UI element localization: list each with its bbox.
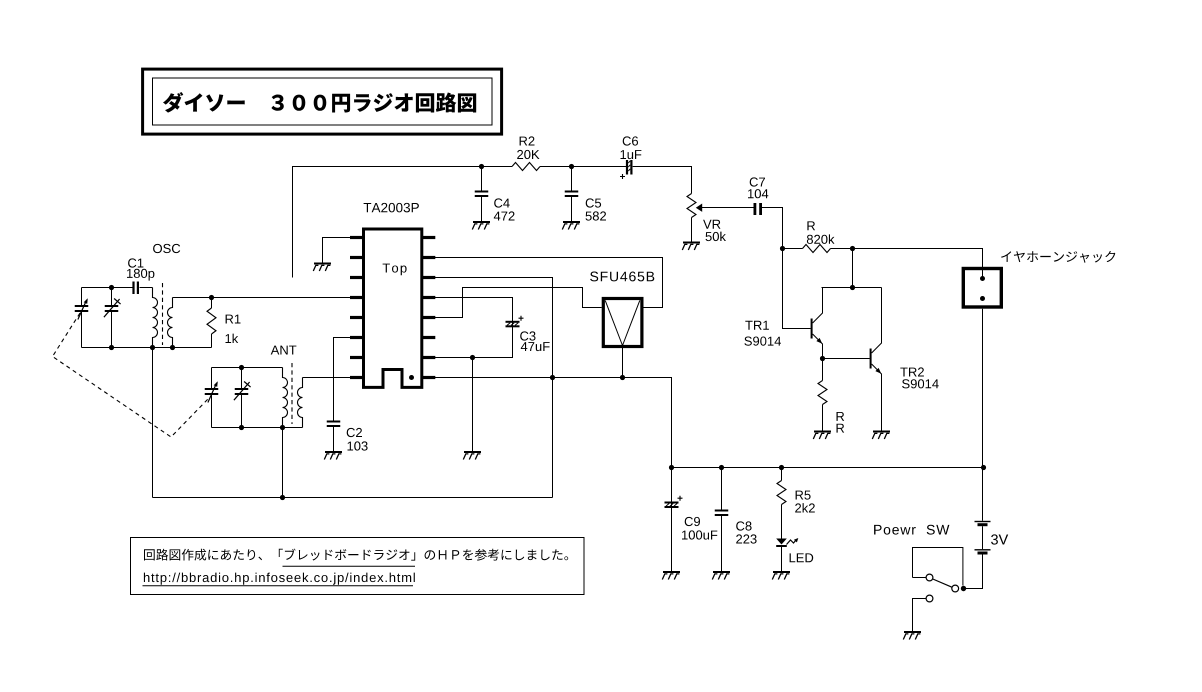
wire [852, 249, 854, 288]
node [239, 365, 244, 370]
capacitor C6 [620, 160, 633, 179]
label TA2003P [364, 203, 419, 213]
resistor R1 [207, 298, 216, 348]
gang dashed line [53, 313, 209, 437]
label 3V [991, 534, 1008, 544]
capacitor C5 [565, 167, 579, 222]
node [239, 425, 244, 430]
wire [762, 208, 811, 329]
IC U1 TA2003P [350, 229, 435, 387]
variable capacitor ant B [234, 368, 251, 428]
label C7 [750, 177, 765, 186]
label 180p [127, 269, 154, 281]
label C4 [494, 198, 510, 207]
node [150, 345, 155, 350]
resistor R [818, 359, 827, 431]
ground [813, 431, 831, 440]
label C8 [736, 521, 751, 530]
wire pin8 net [303, 377, 351, 379]
node [780, 246, 785, 251]
node [669, 465, 674, 470]
node [109, 345, 114, 350]
label S9014 [902, 379, 939, 388]
wire [293, 167, 513, 278]
ground [903, 631, 921, 640]
label C5 [586, 198, 601, 207]
variable capacitor osc B [104, 288, 121, 348]
transistor TR1 S9014 [811, 288, 823, 359]
node [850, 246, 855, 251]
label R [837, 412, 845, 421]
ground [772, 571, 790, 580]
label TR1 [745, 321, 769, 330]
label R [837, 424, 845, 433]
variable capacitor ant A [205, 368, 219, 428]
ground [712, 571, 730, 580]
node C5 top [569, 164, 574, 169]
label C9 [685, 517, 700, 526]
node R1 top [209, 295, 214, 300]
label ANT [271, 346, 297, 355]
wire collector rail [822, 287, 882, 289]
wire [152, 348, 154, 498]
title box [143, 69, 502, 134]
node [981, 465, 986, 470]
wire pin15 net [435, 258, 663, 308]
label 223 [736, 534, 756, 543]
capacitor C2 [327, 421, 341, 452]
node [719, 465, 724, 470]
filter SFU465B [603, 299, 642, 347]
node [280, 425, 285, 430]
capacitor C1 [132, 282, 139, 295]
wire [982, 309, 984, 521]
wire [853, 249, 983, 269]
label 2k2 [795, 503, 815, 512]
node [470, 355, 475, 360]
wire [823, 358, 870, 360]
diode LED [776, 538, 798, 571]
wire pin6 net [334, 338, 351, 421]
wire ANT bottom rail [212, 427, 303, 429]
label R [807, 221, 815, 230]
label OSC [153, 244, 180, 253]
switch Poewr SW [913, 548, 963, 586]
label C1 [128, 258, 143, 267]
label 1uF [621, 150, 642, 159]
wire pin13 net [435, 298, 513, 358]
label SFU465B [590, 272, 654, 282]
label 47uF [521, 342, 550, 351]
wire [472, 358, 474, 452]
node C4 top [479, 164, 484, 169]
label C3 [520, 331, 535, 340]
node [109, 285, 114, 290]
node [620, 375, 625, 380]
label 50k [706, 232, 727, 242]
label 1k [226, 334, 239, 343]
wire pin1 gnd [323, 238, 351, 263]
label R2 [520, 136, 535, 145]
battery 3V [966, 522, 991, 589]
label 103 [348, 441, 368, 450]
node [280, 495, 285, 500]
label 582 [586, 211, 607, 220]
node [779, 465, 784, 470]
wire pin9 net [435, 378, 672, 468]
label LED [790, 553, 814, 562]
node [550, 375, 555, 380]
label R5 [796, 491, 811, 500]
capacitor C7 [754, 203, 763, 215]
label S9014 [744, 337, 781, 346]
earphone jack [963, 269, 1001, 308]
wire bottom rail [153, 497, 553, 499]
capacitor C4 [475, 167, 489, 222]
wire OSC top rail [82, 287, 134, 289]
node [850, 285, 855, 290]
node TR1 emitter [820, 356, 825, 361]
label 100uF [682, 530, 717, 539]
switch contacts [913, 574, 967, 631]
capacitor C9 [665, 468, 683, 572]
wire pin12 net [435, 288, 602, 318]
capacitor C8 [715, 468, 729, 572]
wire [540, 166, 627, 168]
label 472 [494, 211, 515, 220]
node [170, 345, 175, 350]
label earphone jack [1001, 251, 1115, 263]
label 820k [807, 234, 835, 244]
wire [622, 348, 624, 378]
transformer ANT primary [283, 368, 288, 428]
label 20K [517, 150, 539, 159]
potentiometer VR [687, 194, 754, 242]
info text line1 [144, 549, 568, 567]
ground [872, 431, 890, 440]
ground [562, 221, 580, 230]
transformer ANT core [291, 363, 293, 424]
variable capacitor osc A [75, 288, 89, 348]
info box [131, 538, 585, 595]
label TR2 [900, 367, 924, 376]
wire pin4 net [173, 297, 351, 299]
info text url [143, 573, 415, 586]
transformer ANT secondary [298, 378, 303, 428]
transformer OSC secondary [168, 298, 173, 348]
ground [472, 221, 490, 230]
resistor R2 [512, 163, 540, 171]
label C2 [347, 428, 362, 437]
resistor R 820k [783, 245, 853, 253]
resistor R5 [777, 468, 786, 539]
label VR [703, 220, 720, 229]
wire pin14 net [435, 278, 553, 498]
label C6 [623, 136, 638, 145]
ground [662, 571, 680, 580]
title text [163, 92, 476, 113]
ground [682, 242, 700, 251]
wire [982, 268, 984, 278]
ground [313, 263, 331, 272]
label Poewr SW [874, 525, 949, 535]
wire [282, 428, 284, 498]
transformer OSC primary [153, 288, 158, 348]
transistor TR2 S9014 [870, 288, 882, 431]
ground [463, 451, 481, 460]
transformer OSC core [162, 283, 164, 345]
ground [324, 451, 342, 460]
wire [140, 287, 153, 289]
label R1 [226, 315, 241, 324]
wire power rail [672, 467, 984, 469]
capacitor C3 [506, 316, 524, 328]
label 104 [748, 189, 768, 198]
wire ANT top rail [212, 367, 283, 369]
wire [633, 167, 692, 194]
wire OSC bottom rail [82, 347, 212, 349]
